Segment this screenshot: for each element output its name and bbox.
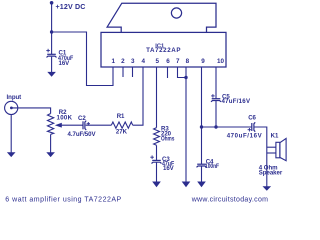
- ground (C3): [152, 182, 161, 188]
- svg-text:C2: C2: [78, 115, 86, 122]
- wire: C6 to speaker: [255, 127, 267, 187]
- ground (pin 8): [182, 182, 191, 188]
- wire: C5 down to output rail: [215, 101, 217, 127]
- ground (input): [7, 152, 16, 157]
- svg-text:5: 5: [156, 58, 160, 65]
- wire: pin 8 down to ground: [185, 67, 187, 183]
- svg-text:6: 6: [166, 58, 170, 65]
- C3 value label: [162, 156, 175, 172]
- svg-text:www.circuitstoday.com: www.circuitstoday.com: [191, 197, 269, 204]
- IC1 label: [146, 43, 181, 54]
- R2 value label: [57, 109, 73, 122]
- R2 wiper arrow to C2: [55, 123, 83, 128]
- wire: input sleeve to ground: [10, 115, 12, 154]
- svg-text:16V: 16V: [59, 60, 71, 67]
- node: pin7-pin8 junction: [184, 76, 187, 79]
- capacitor C1: [46, 49, 56, 58]
- pin numbers 1-10: [111, 58, 224, 65]
- svg-text:Speaker: Speaker: [259, 169, 283, 176]
- wire: C2 to R1: [86, 124, 112, 126]
- capacitor C6: [248, 122, 256, 131]
- C6 value label: [227, 115, 263, 140]
- wire: R2 to ground: [50, 134, 52, 153]
- svg-text:6 watt amplifier using TA7222A: 6 watt amplifier using TA7222AP: [5, 196, 121, 203]
- svg-text:470uF/16V: 470uF/16V: [227, 133, 263, 140]
- wire: C3 to ground: [156, 162, 158, 182]
- capacitor C4: [197, 164, 207, 167]
- node: C5 output junction: [214, 125, 217, 128]
- IC U1 heatsink tab: [107, 3, 216, 32]
- wire: supply rail to pin 1: [52, 32, 113, 86]
- capacitor C5: [211, 94, 221, 102]
- wire: pin 5 down to R3: [156, 67, 158, 128]
- svg-text:3: 3: [131, 58, 135, 65]
- capacitor C3: [150, 155, 161, 163]
- svg-text:Input: Input: [7, 94, 22, 101]
- input jack J1: [5, 101, 18, 114]
- op-amp U1 IC1 TA7222AP body: [101, 32, 226, 67]
- capacitor C2: [83, 121, 90, 130]
- svg-text:47uF/16V: 47uF/16V: [222, 98, 251, 105]
- wire: pin 7 to pin 8: [178, 67, 187, 78]
- resistor R3: [154, 128, 160, 146]
- wire: pin 10 to C5: [215, 67, 217, 99]
- wire: output rail to C6: [202, 126, 252, 128]
- svg-text:8: 8: [186, 58, 190, 65]
- wire: pin 6 stub: [167, 67, 169, 78]
- wire: input to R2 top: [11, 108, 50, 114]
- node: supply junction: [50, 30, 53, 33]
- wire: R3 to C3: [156, 145, 158, 160]
- svg-text:16V: 16V: [163, 165, 175, 172]
- wire: C1 to ground: [51, 57, 53, 73]
- ground (R2): [46, 152, 55, 157]
- node: output junction at pin 9: [200, 125, 203, 128]
- wire: pin 4 down to R1: [133, 67, 143, 125]
- svg-text:9: 9: [201, 58, 205, 65]
- R3 value label: [161, 126, 175, 143]
- svg-text:2: 2: [121, 58, 125, 65]
- svg-text:C6: C6: [248, 115, 256, 122]
- svg-text:10: 10: [217, 58, 225, 65]
- wire: pin 2 stub: [122, 67, 124, 77]
- svg-text:K1: K1: [271, 133, 279, 140]
- wire: C4 to ground: [201, 166, 203, 182]
- K1 label: [259, 133, 283, 177]
- svg-text:100K: 100K: [57, 114, 73, 121]
- svg-text:27K: 27K: [116, 129, 128, 136]
- resistor R1: [111, 122, 132, 128]
- svg-text:Ohms: Ohms: [161, 136, 175, 143]
- speaker K1: [267, 138, 286, 160]
- ground (C4): [197, 182, 206, 188]
- svg-text:TA7222AP: TA7222AP: [146, 47, 181, 54]
- C1 value label: [58, 50, 73, 67]
- svg-text:+12V DC: +12V DC: [56, 3, 86, 11]
- wire: pin 3 stub: [132, 67, 134, 77]
- svg-text:7: 7: [176, 58, 180, 65]
- svg-text:4: 4: [141, 58, 145, 65]
- wire: pin 9 down to C4: [201, 67, 203, 164]
- ground (speaker): [263, 186, 272, 191]
- svg-text:1: 1: [111, 58, 115, 65]
- wire: supply vertical down to C1: [51, 3, 53, 55]
- C5 value label: [222, 93, 251, 105]
- svg-text:R1: R1: [117, 113, 125, 120]
- svg-text:4.7uF/50V: 4.7uF/50V: [68, 131, 97, 138]
- +12V DC supply terminal: [50, 1, 54, 5]
- resistor R2 (volume pot): [48, 114, 54, 135]
- R1 value label: [116, 113, 128, 136]
- C2 value label: [68, 115, 97, 138]
- C4 value label: [205, 158, 219, 170]
- ground (C1): [47, 72, 56, 77]
- svg-text:100nF: 100nF: [205, 163, 219, 170]
